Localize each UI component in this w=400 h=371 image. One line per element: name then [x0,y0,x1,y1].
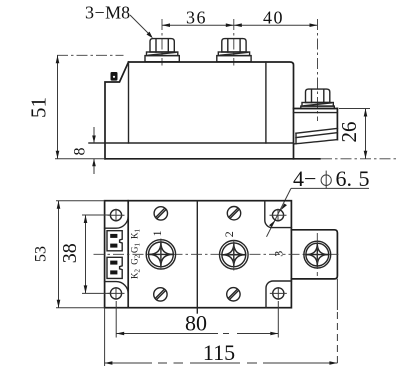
svg-text:6.5: 6.5 [336,166,370,191]
svg-text:36: 36 [186,8,207,28]
svg-text:K2: K2 [130,269,142,280]
bolt B1 nut M8 [150,39,174,52]
svg-text:K1: K1 [130,229,142,240]
screw S2 (top-right, slotted) [227,207,240,220]
left edge extension (down to 115 dim) [104,308,106,366]
svg-text:1: 1 [150,230,164,236]
centerline terminal surface (51 top reference) [57,54,124,56]
screw S1 (top-left, slotted) [154,207,167,220]
base bottom extension (left) [55,158,105,160]
leader to bolt B1 [130,15,153,38]
svg-text:G1: G1 [130,243,142,254]
dimension 80 extensions [116,301,278,338]
svg-text:3−M8: 3−M8 [85,3,130,23]
dimension 38 extensions [82,215,110,293]
terminal lug bottom edge [294,140,337,144]
terminal 3 block [291,230,337,279]
body chamfer edge (left) [128,62,130,143]
base bottom centerline (right, dash-dot) [321,158,397,160]
bolt B3 terminal pad [301,106,335,108]
bolt B3 spring washer [302,103,333,107]
leader line to hole H2 [267,188,292,236]
terminal block plate line [294,112,338,114]
centerline bolt B3 [317,19,319,121]
svg-text:80: 80 [185,311,207,336]
svg-text:G2: G2 [130,254,142,265]
terminal 3 [304,233,331,276]
dimension 53 line [57,201,61,308]
centerline bolt B2 [233,19,235,66]
svg-text:4−: 4− [293,166,316,191]
dimension 115 line [104,361,337,365]
svg-text:115: 115 [203,340,235,365]
svg-text:40: 40 [263,8,284,28]
leader underline [291,187,369,189]
mounting hole H2 (top-right) [270,209,287,222]
mounting hole H1 (top-left) [108,209,125,222]
bolt B1 terminal pad [145,56,179,62]
dimension 8 extension (base top) [89,142,104,144]
gate strip divider [127,201,129,308]
base plate top edge [89,142,294,144]
dimension 26 extension (block top) [339,108,370,110]
corner lug top-right [265,201,292,228]
terminal lug left end [295,133,297,144]
screw S4 (bottom-right, slotted) [227,288,240,301]
screw S3 (bottom-left, slotted) [154,288,167,301]
terminal block right edge [336,109,338,140]
plan outer body [105,201,292,308]
middle divider [196,201,198,313]
centerline bolt B1 [161,19,163,66]
top edge extension (left) [56,200,105,202]
dimension line 36 [162,23,234,27]
dimension 26 line [364,109,368,159]
bolt B1 spring washer [147,52,178,56]
terminal 2 [220,240,249,271]
bolt B2 spring washer [218,52,249,56]
block right edge extension (down to 115 dim) [336,279,338,310]
corner lug top-left [105,204,129,228]
main horizontal centerline [94,253,342,255]
mounting hole H4 (bottom-right) [270,287,287,300]
bolt B2 terminal pad [217,56,251,62]
svg-text:8: 8 [72,148,89,156]
terminal lug edge 2 [296,133,337,138]
dimension 38 line [84,215,88,293]
terminal 1 [146,239,175,270]
dimension line 40 [234,23,318,27]
bolt B3 nut M8 [306,89,330,102]
terminal lug edge 1 [296,128,337,133]
module body outline [105,62,294,159]
svg-text:26: 26 [337,122,361,143]
bolt B2 nut M8 [222,39,246,52]
corner lug bottom-left [105,282,129,305]
terminal block (right) top edge [294,108,338,110]
corner lug bottom-right [266,281,291,308]
gate labels K1 G1 G2 K2 [130,229,142,280]
dimension 80 line [116,332,278,336]
dimension 8 line and arrows [92,127,96,174]
polarity mark (black) [111,72,118,81]
svg-text:2: 2 [222,231,236,237]
svg-text:3: 3 [272,251,286,257]
base plate bottom edge [105,158,320,160]
svg-text:51: 51 [27,97,51,118]
bottom edge extension (left) [56,307,105,309]
svg-text:53: 53 [33,246,50,262]
gate tab T2 (lower) [107,257,122,278]
mounting hole H3 (bottom-left) [108,287,125,300]
svg-text:38: 38 [59,243,81,263]
gate tab T1 (upper) [107,231,122,251]
dimension 51 line [56,55,60,159]
body inner edge (right) [265,62,267,143]
